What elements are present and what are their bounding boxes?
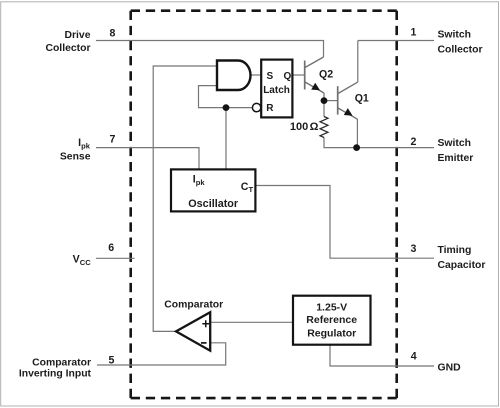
svg-text:Q1: Q1 [355,93,369,105]
svg-text:Comparator: Comparator [32,357,91,368]
svg-text:Drive: Drive [65,30,91,41]
svg-text:2: 2 [411,136,417,148]
reference regulator block [293,296,371,345]
resistor 100 ohm [320,117,328,138]
svg-text:Q2: Q2 [319,68,333,80]
wire comparator output to AND gate input [153,66,217,331]
svg-text:3: 3 [411,243,417,255]
wire latch Q to Q2 base [292,74,304,76]
wire latch R node to oscillator top [225,108,227,170]
svg-text:Ipk: Ipk [78,137,91,150]
wire pin 5 comparator inverting input [97,343,226,365]
svg-text:7: 7 [110,133,116,145]
svg-text:Reference: Reference [306,314,357,326]
svg-text:Collector: Collector [45,43,90,54]
svg-text:Sense: Sense [60,152,91,163]
svg-text:Inverting Input: Inverting Input [19,369,92,380]
comparator [176,312,210,351]
wire pin 7 Ipk sense to oscillator [96,148,199,170]
transistor Q2 [305,57,324,93]
wire pin 6 Vcc stub [96,257,135,259]
svg-text:Regulator: Regulator [307,328,356,340]
svg-text:1.25-V: 1.25-V [316,302,347,314]
svg-text:GND: GND [438,363,462,374]
wire Q1 collector riser [357,41,359,83]
latch U1 box [261,60,292,118]
svg-text:100: 100 [290,121,308,133]
svg-text:8: 8 [110,28,116,40]
junction node B Q2 emitter Q1 base [321,97,328,104]
wire pin 1 switch collector [358,40,434,42]
svg-text:S: S [267,71,274,82]
IC boundary dashed box [131,11,397,398]
wire pin 2 switch emitter [324,138,434,148]
latch R inverting bubble [252,103,260,111]
comparator minus input mark [201,342,207,344]
wire pin 8 drive collector to Q2 collector [96,41,324,58]
wire AND gate lower input from latch R node [199,86,253,108]
svg-text:Emitter: Emitter [438,153,474,164]
svg-text:5: 5 [109,354,115,366]
svg-text:R: R [266,103,274,114]
svg-text:Oscillator: Oscillator [188,198,239,210]
svg-text:VCC: VCC [73,254,92,267]
svg-text:Q: Q [284,71,292,82]
svg-text:Capacitor: Capacitor [438,260,486,271]
svg-text:Comparator: Comparator [164,299,223,310]
wire reference regulator to pin 4 GND [330,345,434,366]
wire node B to Q1 base [324,100,338,102]
junction node C Q1 emitter pin 2 [353,144,360,151]
svg-text:Switch: Switch [438,29,472,40]
svg-text:4: 4 [411,350,417,362]
wire Q2 emitter to Q1 base node [323,93,325,117]
svg-text:Collector: Collector [438,44,483,55]
wire Q1 emitter drop [356,119,358,148]
transistor Q1 [338,82,358,119]
oscillator block [171,169,255,211]
AND gate [217,61,250,91]
wire oscillator CT to pin 3 timing capacitor [255,186,434,259]
junction node A latch R [223,104,230,111]
svg-text:1: 1 [411,27,417,39]
wire AND output to latch S [251,74,262,76]
svg-text:6: 6 [108,242,114,254]
svg-text:Latch: Latch [263,85,290,96]
svg-text:Switch: Switch [438,138,472,149]
svg-text:Timing: Timing [438,245,472,256]
svg-text:Ω: Ω [310,121,319,133]
wire comparator noninverting input to reference [210,321,293,323]
comparator plus input mark [202,320,209,327]
